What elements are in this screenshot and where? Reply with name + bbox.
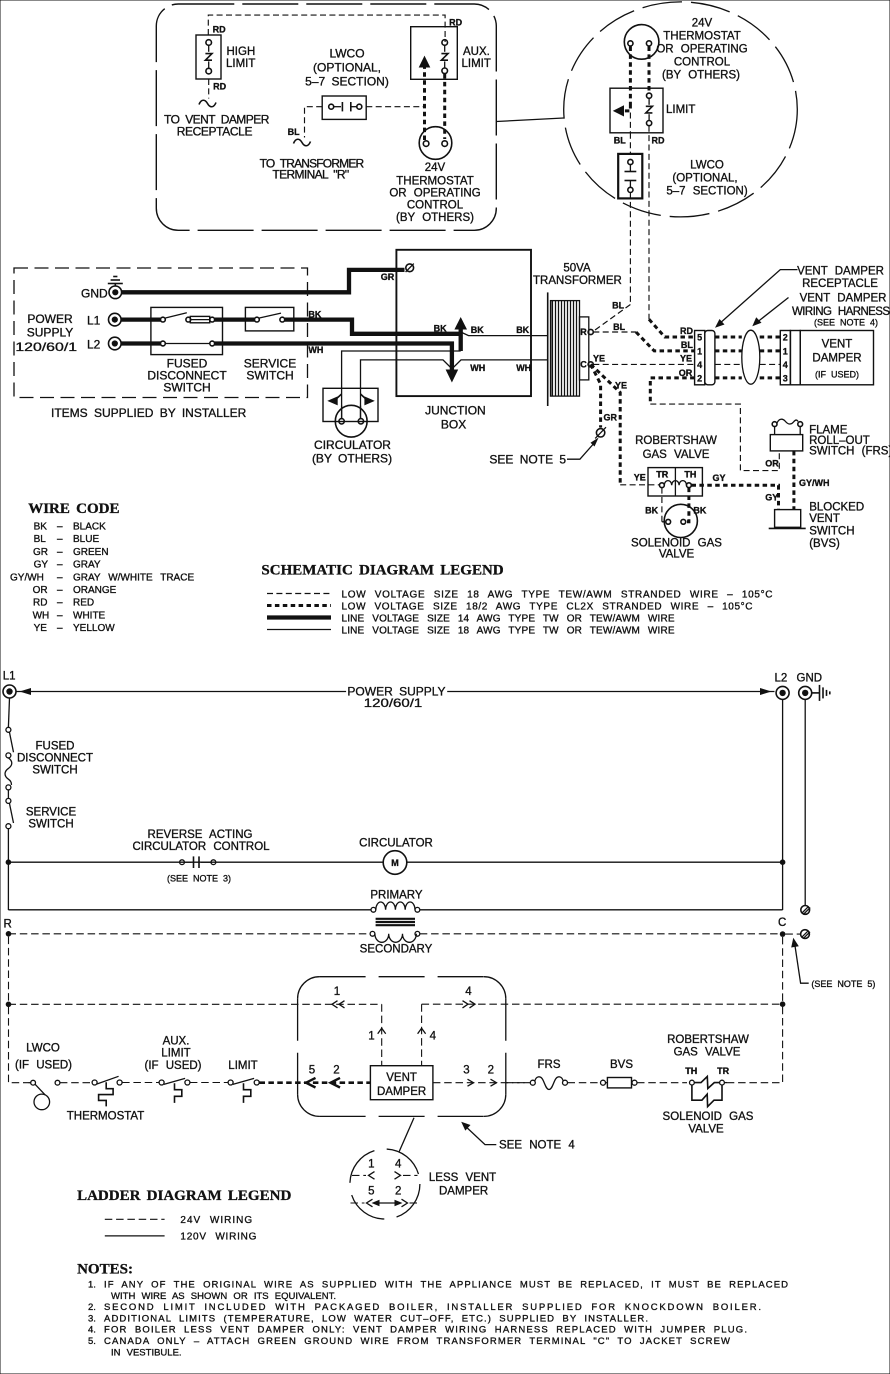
svg-text:THERMOSTAT: THERMOSTAT xyxy=(67,1111,145,1123)
items supplied by installer dashed box xyxy=(14,268,308,398)
flame rollout switch xyxy=(770,419,890,457)
svg-text:CIRCULATOR: CIRCULATOR xyxy=(314,438,391,452)
svg-text:RD: RD xyxy=(680,326,693,336)
svg-text:BL: BL xyxy=(681,340,693,350)
drop wires to vent damper xyxy=(368,1004,436,1065)
svg-text:BVS: BVS xyxy=(610,1059,633,1071)
svg-text:HIGH: HIGH xyxy=(227,46,256,58)
circulator rung xyxy=(8,859,785,865)
svg-text:GND: GND xyxy=(81,286,108,300)
right rail L2 xyxy=(782,699,784,910)
svg-text:GR: GR xyxy=(604,413,618,423)
svg-text:LINE VOLTAGE SIZE 14 AWG TYPE: LINE VOLTAGE SIZE 14 AWG TYPE TW OR TEW/… xyxy=(342,614,675,625)
svg-text:TRANSFORMER: TRANSFORMER xyxy=(533,275,622,287)
left rail dashed lower xyxy=(6,937,29,1083)
svg-text:BK: BK xyxy=(434,324,447,334)
thermostat circle in balloon xyxy=(624,18,747,82)
svg-text:2: 2 xyxy=(783,333,788,343)
svg-text:1: 1 xyxy=(334,986,340,998)
svg-text:LWCO: LWCO xyxy=(329,47,364,61)
leader line to balloon xyxy=(496,118,563,122)
svg-text:CIRCULATOR: CIRCULATOR xyxy=(359,838,433,850)
wire GY to BVS xyxy=(692,473,779,510)
junction box screw xyxy=(406,264,414,272)
svg-text:C: C xyxy=(580,359,587,369)
svg-text:NOTES:: NOTES: xyxy=(77,1262,133,1278)
svg-text:CIRCULATOR CONTROL: CIRCULATOR CONTROL xyxy=(132,841,270,853)
pin1 arrows on mid rung xyxy=(332,986,345,1008)
svg-text:GR: GR xyxy=(381,272,395,282)
svg-text:BLUE: BLUE xyxy=(73,534,99,545)
screw jacket upper xyxy=(801,906,810,915)
svg-text:5: 5 xyxy=(368,1185,374,1197)
svg-text:DAMPER: DAMPER xyxy=(439,1185,488,1197)
harness wires right of ellipse xyxy=(760,337,781,378)
svg-text:GY/WH: GY/WH xyxy=(799,478,830,488)
svg-text:BK: BK xyxy=(516,325,529,335)
svg-text:FRS: FRS xyxy=(538,1059,561,1071)
svg-text:VENT: VENT xyxy=(809,513,840,525)
svg-text:1: 1 xyxy=(368,1031,374,1043)
svg-text:–: – xyxy=(57,534,63,545)
svg-text:M: M xyxy=(391,858,399,868)
svg-text:5.: 5. xyxy=(88,1336,96,1347)
svg-text:LIMIT: LIMIT xyxy=(161,1048,190,1060)
svg-text:1: 1 xyxy=(783,346,788,356)
LWCO optional switch xyxy=(305,47,389,120)
svg-text:YE: YE xyxy=(680,354,692,364)
svg-text:3: 3 xyxy=(463,1064,469,1076)
svg-text:TR: TR xyxy=(717,1066,729,1076)
svg-text:THERMOSTAT: THERMOSTAT xyxy=(663,31,741,43)
svg-text:LIMIT: LIMIT xyxy=(462,58,491,70)
svg-text:AUX.: AUX. xyxy=(463,46,490,58)
RD wire balloon to receptacle xyxy=(649,126,695,337)
circulator wires thin xyxy=(342,351,548,419)
svg-text:2: 2 xyxy=(395,1185,401,1197)
svg-text:OR: OR xyxy=(679,368,693,378)
svg-text:LWCO: LWCO xyxy=(26,1043,60,1055)
svg-text:24V: 24V xyxy=(425,162,446,174)
svg-text:50VA: 50VA xyxy=(563,262,591,274)
svg-text:GY/WH: GY/WH xyxy=(10,572,44,583)
wire RD upper dashed run xyxy=(208,15,462,42)
right rail GND to screw xyxy=(804,699,806,905)
svg-text:WIRING HARNESS: WIRING HARNESS xyxy=(792,306,890,318)
aux limit box xyxy=(411,27,491,80)
terminal L1 ladder xyxy=(3,671,16,699)
thermostat symbol ladder xyxy=(67,1076,159,1122)
thick dashed wires from thermostat into limit xyxy=(613,47,649,133)
svg-text:BL: BL xyxy=(613,322,625,332)
svg-text:SCHEMATIC DIAGRAM LEGEND: SCHEMATIC DIAGRAM LEGEND xyxy=(261,563,503,579)
svg-text:2: 2 xyxy=(333,1064,339,1076)
svg-text:(OPTIONAL,: (OPTIONAL, xyxy=(672,173,737,185)
svg-text:LOW VOLTAGE SIZE 18 AWG TYPE T: LOW VOLTAGE SIZE 18 AWG TYPE TEW/AWM STR… xyxy=(342,590,773,601)
svg-text:IF ANY OF THE ORIGINAL WIRE AS: IF ANY OF THE ORIGINAL WIRE AS SUPPLIED … xyxy=(104,1280,788,1291)
svg-text:VENT: VENT xyxy=(822,339,853,351)
svg-text:L1: L1 xyxy=(3,671,16,683)
svg-text:(SEE NOTE 5): (SEE NOTE 5) xyxy=(811,979,875,989)
svg-text:SECONDARY: SECONDARY xyxy=(360,944,433,956)
svg-text:OR: OR xyxy=(33,585,48,596)
svg-text:SOLENOID GAS: SOLENOID GAS xyxy=(663,1111,754,1123)
svg-text:(IF USED): (IF USED) xyxy=(815,370,859,380)
svg-text:LIMIT: LIMIT xyxy=(226,58,255,70)
svg-text:–: – xyxy=(57,560,63,571)
svg-text:–: – xyxy=(57,598,63,609)
robertshaw gas valve xyxy=(635,435,717,496)
svg-text:ADDITIONAL LIMITS (TEMPERATURE: ADDITIONAL LIMITS (TEMPERATURE, LOW WATE… xyxy=(104,1313,648,1324)
svg-text:TH: TH xyxy=(684,469,696,479)
svg-text:LOW VOLTAGE SIZE 18/2 AWG TYPE: LOW VOLTAGE SIZE 18/2 AWG TYPE CL2X STRA… xyxy=(342,602,753,613)
svg-text:SWITCH: SWITCH xyxy=(809,526,854,538)
high limit HL xyxy=(196,35,255,79)
wire OR receptacle to FRS xyxy=(650,368,779,471)
wire LWCO to thermostat dashed xyxy=(366,106,423,108)
svg-text:VALVE: VALVE xyxy=(659,549,695,561)
svg-text:–: – xyxy=(57,572,63,583)
svg-text:YE: YE xyxy=(634,473,646,483)
svg-text:BL: BL xyxy=(614,136,626,146)
see note 5 leader xyxy=(489,438,598,467)
left rail upper with switches xyxy=(5,698,93,910)
svg-text:DAMPER: DAMPER xyxy=(812,353,861,365)
svg-text:24V: 24V xyxy=(692,18,713,30)
ground symbol xyxy=(108,277,123,287)
svg-text:5: 5 xyxy=(697,333,702,343)
svg-text:CANADA ONLY – ATTACH GREEN GRO: CANADA ONLY – ATTACH GREEN GROUND WIRE F… xyxy=(104,1336,730,1347)
svg-text:VENT DAMPER: VENT DAMPER xyxy=(800,293,887,305)
svg-text:4: 4 xyxy=(465,986,472,998)
svg-text:VALVE: VALVE xyxy=(688,1124,724,1136)
wire GY/WH FRS to BVS xyxy=(794,451,830,510)
svg-text:AUX.: AUX. xyxy=(163,1036,190,1048)
LWCO if used symbol xyxy=(15,1043,92,1110)
svg-text:GREEN: GREEN xyxy=(73,547,109,558)
svg-text:YE: YE xyxy=(615,381,627,391)
svg-text:GAS VALVE: GAS VALVE xyxy=(674,1047,741,1059)
svg-text:IN VESTIBULE.: IN VESTIBULE. xyxy=(111,1347,182,1358)
pin4 arrows on mid rung xyxy=(463,986,476,1008)
svg-text:WH: WH xyxy=(308,345,323,355)
svg-text:ROBERTSHAW: ROBERTSHAW xyxy=(635,435,717,447)
svg-text:5–7 SECTION): 5–7 SECTION) xyxy=(666,186,747,198)
svg-text:SUPPLY: SUPPLY xyxy=(27,326,73,340)
svg-text:OR OPERATING: OR OPERATING xyxy=(656,44,747,56)
enclosure dashed rounded box xyxy=(156,4,496,230)
svg-text:GR: GR xyxy=(33,547,48,558)
svg-text:THERMOSTAT: THERMOSTAT xyxy=(396,176,474,188)
svg-text:(SEE NOTE 3): (SEE NOTE 3) xyxy=(167,874,231,884)
svg-text:RD: RD xyxy=(33,598,47,609)
junction box xyxy=(396,250,531,432)
screw jacket C xyxy=(785,930,810,939)
svg-text:(IF USED): (IF USED) xyxy=(15,1060,72,1072)
svg-text:YE: YE xyxy=(593,354,605,364)
svg-text:OR OPERATING: OR OPERATING xyxy=(389,188,480,200)
vent damper box xyxy=(370,1066,433,1100)
svg-text:POWER: POWER xyxy=(27,312,73,326)
WH down arrowhead xyxy=(446,370,459,383)
secondary rung R C xyxy=(4,917,787,956)
svg-text:SWITCH (FRS): SWITCH (FRS) xyxy=(809,445,890,457)
thin dashed rung right of vent damper xyxy=(433,1064,530,1086)
svg-text:3: 3 xyxy=(783,373,788,383)
svg-text:GY: GY xyxy=(713,473,726,483)
svg-text:4.: 4. xyxy=(88,1325,96,1336)
svg-text:5–7 SECTION): 5–7 SECTION) xyxy=(305,75,389,89)
reverse acting circulator control xyxy=(132,829,270,884)
svg-text:ITEMS SUPPLIED BY INSTALLER: ITEMS SUPPLIED BY INSTALLER xyxy=(51,406,247,420)
svg-text:SWITCH: SWITCH xyxy=(163,381,210,395)
svg-text:CONTROL: CONTROL xyxy=(407,200,464,212)
svg-text:RD: RD xyxy=(213,82,226,92)
svg-text:4: 4 xyxy=(430,1031,437,1043)
svg-text:–: – xyxy=(57,547,63,558)
svg-text:FOR BOILER LESS VENT DAMPER ON: FOR BOILER LESS VENT DAMPER ONLY: VENT D… xyxy=(104,1325,747,1336)
SECTION: wire code xyxy=(10,501,194,634)
svg-text:GY: GY xyxy=(765,492,778,502)
svg-text:TERMINAL "R": TERMINAL "R" xyxy=(272,168,349,182)
BK wires to solenoid xyxy=(645,488,707,522)
svg-text:SWITCH: SWITCH xyxy=(246,369,293,383)
thick dashed RD down to thermostat xyxy=(443,74,446,139)
wire BL from R to receptacle xyxy=(593,322,694,351)
less vent damper circle xyxy=(350,1118,496,1219)
svg-text:(BY OTHERS): (BY OTHERS) xyxy=(396,212,474,224)
svg-text:YE: YE xyxy=(34,623,48,634)
svg-text:WH: WH xyxy=(33,610,50,621)
thermostat rung thick dashed to vent damper xyxy=(260,1064,371,1087)
wire BK thick to junction xyxy=(285,320,459,334)
SECTION: schematic legend xyxy=(261,563,772,637)
svg-text:120/60/1: 120/60/1 xyxy=(15,340,77,354)
svg-text:PRIMARY: PRIMARY xyxy=(370,890,423,902)
svg-text:2: 2 xyxy=(697,373,702,383)
svg-text:L1: L1 xyxy=(87,313,101,327)
svg-text:R: R xyxy=(4,919,12,931)
svg-text:VENT: VENT xyxy=(386,1072,417,1084)
svg-text:BK: BK xyxy=(34,522,48,533)
svg-text:LINE VOLTAGE SIZE 18 AWG TYPE: LINE VOLTAGE SIZE 18 AWG TYPE TW OR TEW/… xyxy=(342,626,675,637)
24V thermostat control circle xyxy=(389,127,480,224)
svg-text:BL: BL xyxy=(34,534,47,545)
svg-text:BLACK: BLACK xyxy=(73,522,106,533)
aux limit symbol ladder xyxy=(144,1036,228,1103)
svg-text:–: – xyxy=(57,522,63,533)
power supply rung xyxy=(16,685,774,711)
power supply label xyxy=(15,312,77,354)
terminal GND ladder xyxy=(797,673,823,700)
leader vent damper receptacle xyxy=(715,266,884,328)
svg-text:LADDER DIAGRAM LEGEND: LADDER DIAGRAM LEGEND xyxy=(77,1188,291,1204)
svg-text:GY: GY xyxy=(34,560,49,571)
BL wire balloon to transformer R xyxy=(593,193,630,332)
limit box in balloon xyxy=(610,88,695,145)
svg-text:BK: BK xyxy=(308,309,321,319)
svg-text:OR: OR xyxy=(765,459,779,469)
svg-text:ORANGE: ORANGE xyxy=(73,585,117,596)
wire BK thin to transformer xyxy=(462,333,548,336)
svg-text:GRAY W/WHITE TRACE: GRAY W/WHITE TRACE xyxy=(73,572,194,583)
svg-text:DISCONNECT: DISCONNECT xyxy=(17,753,93,765)
svg-text:VENT DAMPER: VENT DAMPER xyxy=(797,266,884,278)
vent damper receptacle xyxy=(695,331,715,385)
circulator motor xyxy=(359,838,433,875)
svg-text:4: 4 xyxy=(395,1158,402,1170)
svg-text:(BY OTHERS): (BY OTHERS) xyxy=(312,452,392,466)
wire YE to gas valve xyxy=(591,364,660,484)
svg-text:–: – xyxy=(57,610,63,621)
svg-text:1: 1 xyxy=(697,346,702,356)
svg-text:120V WIRING: 120V WIRING xyxy=(180,1232,256,1243)
SECTION: ladder legend xyxy=(77,1188,291,1243)
svg-text:24V WIRING: 24V WIRING xyxy=(180,1215,252,1226)
svg-text:1: 1 xyxy=(368,1158,374,1170)
svg-text:SEE NOTE 4: SEE NOTE 4 xyxy=(499,1140,575,1152)
svg-text:SEE NOTE 5: SEE NOTE 5 xyxy=(489,453,566,467)
service switch xyxy=(215,307,297,382)
svg-text:BK: BK xyxy=(471,325,484,335)
transformer core bars xyxy=(376,919,415,925)
svg-text:LIMIT: LIMIT xyxy=(666,104,695,116)
svg-text:LESS VENT: LESS VENT xyxy=(429,1172,496,1184)
svg-text:BL: BL xyxy=(612,301,624,311)
svg-text:L2: L2 xyxy=(775,673,788,685)
leader wiring harness xyxy=(752,293,890,328)
harness wires left of ellipse xyxy=(715,337,742,378)
svg-text:C: C xyxy=(778,917,786,929)
solenoid gas valve xyxy=(631,504,722,560)
svg-text:R: R xyxy=(580,327,587,337)
svg-text:SECOND LIMIT INCLUDED WITH PAC: SECOND LIMIT INCLUDED WITH PACKAGED BOIL… xyxy=(104,1302,761,1313)
thick dashed arrow up (to limit) xyxy=(419,56,431,140)
svg-text:GRAY: GRAY xyxy=(73,560,101,571)
svg-text:GAS VALVE: GAS VALVE xyxy=(643,449,710,461)
balloon dashed circle xyxy=(564,2,798,217)
svg-text:RED: RED xyxy=(73,598,94,609)
svg-text:2.: 2. xyxy=(88,1302,96,1313)
svg-text:YELLOW: YELLOW xyxy=(73,623,115,634)
svg-text:2: 2 xyxy=(488,1064,494,1076)
svg-text:4: 4 xyxy=(783,360,788,370)
svg-text:BOX: BOX xyxy=(441,418,466,432)
svg-text:(BY OTHERS): (BY OTHERS) xyxy=(662,70,740,82)
svg-text:BLOCKED: BLOCKED xyxy=(809,502,864,514)
svg-text:WHITE: WHITE xyxy=(73,610,106,621)
svg-text:LWCO: LWCO xyxy=(690,160,724,172)
FRS symbol ladder xyxy=(506,1059,601,1090)
svg-text:LIMIT: LIMIT xyxy=(228,1060,257,1072)
harness ellipse xyxy=(742,330,760,384)
wire YE from C to receptacle xyxy=(593,354,695,365)
wire RD to vent damper stub xyxy=(164,79,270,139)
svg-text:RECEPTACLE: RECEPTACLE xyxy=(802,278,878,290)
svg-text:SERVICE: SERVICE xyxy=(26,807,77,819)
fused disconnect switch xyxy=(121,307,227,394)
svg-text:WH: WH xyxy=(470,363,485,373)
svg-text:JUNCTION: JUNCTION xyxy=(425,404,486,418)
svg-text:4: 4 xyxy=(697,360,702,370)
vent damper rounded enclosure xyxy=(298,977,506,1117)
svg-text:RECEPTACLE: RECEPTACLE xyxy=(177,125,253,139)
svg-text:1.: 1. xyxy=(88,1280,96,1291)
svg-text:–: – xyxy=(57,585,63,596)
svg-text:RD: RD xyxy=(652,136,665,146)
svg-text:(BVS): (BVS) xyxy=(809,538,840,550)
svg-text:TH: TH xyxy=(685,1066,697,1076)
svg-text:SWITCH: SWITCH xyxy=(28,819,73,831)
see note 4 leader xyxy=(461,1122,575,1152)
svg-text:WH: WH xyxy=(516,363,531,373)
lwco box in balloon xyxy=(618,133,748,199)
ground symbol ladder xyxy=(812,685,830,701)
svg-text:TR: TR xyxy=(656,469,668,479)
svg-text:5: 5 xyxy=(309,1064,315,1076)
svg-text:ROBERTSHAW: ROBERTSHAW xyxy=(667,1034,749,1046)
svg-text:(OPTIONAL,: (OPTIONAL, xyxy=(313,61,381,75)
svg-text:DAMPER: DAMPER xyxy=(377,1086,426,1098)
mid dashed rung xyxy=(9,1003,783,1005)
terminal L2 ladder xyxy=(775,673,790,700)
svg-text:3.: 3. xyxy=(88,1313,96,1324)
svg-text:–: – xyxy=(57,623,63,634)
svg-text:WIRE CODE: WIRE CODE xyxy=(28,501,119,517)
svg-text:(IF USED): (IF USED) xyxy=(144,1060,201,1072)
robertshaw valve ladder xyxy=(663,1034,754,1136)
primary rung xyxy=(8,890,782,913)
svg-text:CONTROL: CONTROL xyxy=(674,57,731,69)
svg-text:(SEE NOTE 4): (SEE NOTE 4) xyxy=(814,318,878,328)
limit symbol ladder xyxy=(228,1060,259,1103)
wire GR thick xyxy=(122,270,405,292)
svg-text:WITH WIRE AS SHOWN OR ITS EQUI: WITH WIRE AS SHOWN OR ITS EQUIVALENT. xyxy=(111,1291,336,1302)
BVS symbol ladder xyxy=(601,1059,688,1088)
svg-text:FUSED: FUSED xyxy=(36,741,75,753)
wire GR to ground screw xyxy=(591,364,618,427)
svg-text:L2: L2 xyxy=(87,337,101,351)
svg-text:120/60/1: 120/60/1 xyxy=(364,696,423,710)
blocked vent switch xyxy=(769,502,864,551)
see note 5 ladder leader xyxy=(791,938,875,989)
wire BL to transformer stub xyxy=(260,107,365,182)
svg-text:SWITCH: SWITCH xyxy=(32,765,77,777)
ground screw see note 5 xyxy=(595,427,606,438)
svg-text:RD: RD xyxy=(213,25,226,35)
wire WH thick to junction xyxy=(215,344,452,372)
vent damper plug and box xyxy=(780,331,873,385)
svg-text:GND: GND xyxy=(797,673,823,685)
BK up arrow bundle xyxy=(434,317,485,351)
svg-text:REVERSE ACTING: REVERSE ACTING xyxy=(148,829,253,841)
SECTION: notes xyxy=(77,1262,788,1359)
svg-text:BL: BL xyxy=(288,127,300,137)
50VA transformer xyxy=(533,262,622,406)
right rail dashed lower xyxy=(726,937,785,1083)
svg-text:BK: BK xyxy=(645,505,658,515)
circulator by others xyxy=(312,388,392,465)
